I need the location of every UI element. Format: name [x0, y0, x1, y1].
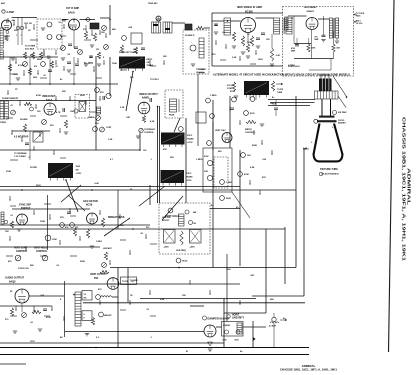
svg-text:47K: 47K [163, 148, 167, 151]
svg-text:IF AGC: IF AGC [18, 64, 25, 67]
svg-text:12K: 12K [266, 39, 270, 41]
svg-text:100K: 100K [40, 221, 45, 223]
svg-text:.05: .05 [43, 75, 46, 77]
svg-text:SYNC: SYNC [204, 156, 209, 158]
svg-text:.05: .05 [55, 66, 58, 68]
svg-text:220K: 220K [226, 198, 231, 200]
svg-text:CONT: CONT [227, 88, 233, 90]
svg-text:CONTRAST: CONTRAST [144, 128, 156, 131]
svg-text:6SN7GT: 6SN7GT [162, 220, 170, 222]
svg-text:RATIO: RATIO [147, 58, 153, 61]
svg-text:12K: 12K [101, 32, 105, 34]
svg-text:6.8K: 6.8K [160, 299, 165, 301]
svg-text:100K: 100K [52, 239, 57, 241]
svg-text:WDG: WDG [356, 16, 361, 18]
svg-text:3RD VIDEO IF AMP: 3RD VIDEO IF AMP [237, 5, 262, 9]
svg-text:+130V: +130V [186, 180, 192, 182]
svg-text:SOUND TAKEOFF: SOUND TAKEOFF [2, 97, 19, 100]
svg-text:VERT OUTPUT: VERT OUTPUT [90, 273, 107, 276]
svg-text:47K: 47K [262, 176, 266, 179]
svg-text:5600: 5600 [33, 77, 37, 79]
svg-text:2.2K: 2.2K [120, 107, 125, 109]
svg-text:+130V: +130V [187, 142, 193, 144]
svg-text:TUBE: TUBE [277, 92, 283, 94]
svg-text:TO PIN: TO PIN [122, 281, 129, 283]
svg-text:4.5 AMP: 4.5 AMP [269, 325, 277, 328]
svg-text:6AW8: 6AW8 [142, 97, 149, 100]
svg-text:1 MEG: 1 MEG [96, 241, 102, 243]
svg-text:ION TRAP: ION TRAP [338, 111, 347, 114]
svg-text:27K: 27K [60, 217, 64, 219]
svg-text:8: 8 [84, 318, 85, 320]
svg-text:HORIZ: HORIZ [232, 315, 240, 317]
svg-text:1 MEG: 1 MEG [88, 117, 95, 119]
svg-text:1ST IF AMP: 1ST IF AMP [66, 7, 79, 10]
svg-text:6AQ5: 6AQ5 [9, 281, 16, 284]
svg-text:CHASSIS 19B1, 19C1, 19F1, A, 1: CHASSIS 19B1, 19C1, 19F1, A, 19H1, 19K1 [280, 367, 337, 371]
svg-text:56K: 56K [270, 299, 274, 301]
svg-text:10K: 10K [182, 295, 186, 297]
svg-text:.0039: .0039 [222, 340, 227, 342]
svg-text:6CB6: 6CB6 [245, 10, 253, 14]
svg-text:3.9K: 3.9K [232, 57, 237, 59]
svg-text:+400V: +400V [190, 246, 196, 249]
svg-text:1.5K: 1.5K [108, 139, 113, 141]
svg-text:VIDEO DET: VIDEO DET [42, 95, 56, 98]
svg-text:TO GRID: TO GRID [198, 69, 206, 71]
svg-text:CONTROL: CONTROL [16, 251, 28, 253]
svg-text:AC: AC [60, 336, 64, 339]
svg-text:SOUND IF: SOUND IF [185, 35, 195, 37]
svg-text:TO TUNER: TO TUNER [25, 46, 36, 48]
svg-text:HORIZ HOLD: HORIZ HOLD [288, 66, 300, 68]
svg-text:100K: 100K [311, 48, 316, 50]
svg-text:4: 4 [84, 313, 85, 316]
svg-text:SOUND: SOUND [20, 119, 28, 121]
svg-text:6.8K: 6.8K [250, 167, 255, 169]
svg-text:150: 150 [96, 49, 99, 51]
svg-text:470K: 470K [46, 316, 51, 319]
svg-text:6AU6: 6AU6 [68, 11, 75, 15]
svg-text:500: 500 [84, 298, 87, 300]
svg-text:MAGNET: MAGNET [338, 122, 347, 125]
svg-text:HOR FREQ: HOR FREQ [176, 250, 187, 252]
svg-text:68K: 68K [112, 29, 116, 31]
svg-text:6CS6: 6CS6 [86, 204, 93, 207]
svg-text:8: 8 [103, 57, 104, 59]
svg-text:115V: 115V [30, 341, 35, 343]
svg-text:LINEARITY: LINEARITY [232, 317, 245, 320]
svg-text:PICTURE TUBE: PICTURE TUBE [320, 168, 338, 171]
svg-text:AGC BUS: AGC BUS [25, 48, 35, 51]
svg-text:6S4: 6S4 [94, 277, 99, 280]
svg-text:WIDTH: WIDTH [245, 129, 252, 131]
svg-text:HOR: HOR [272, 104, 277, 106]
svg-text:500K: 500K [252, 145, 257, 147]
svg-text:C OF TUNER: C OF TUNER [14, 156, 26, 158]
svg-text:150V: 150V [258, 59, 263, 61]
svg-text:2W: 2W [76, 170, 79, 172]
svg-text:22K: 22K [163, 56, 167, 58]
svg-text:HOR SWEEP: HOR SWEEP [304, 7, 317, 9]
svg-text:VIDEO OUTPUT: VIDEO OUTPUT [139, 93, 158, 96]
svg-text:100: 100 [193, 223, 196, 225]
svg-text:1 MEG: 1 MEG [226, 182, 233, 184]
svg-text:470K: 470K [244, 173, 249, 176]
svg-text:VIDEO: VIDEO [0, 122, 7, 124]
svg-text:4.7K: 4.7K [56, 111, 61, 114]
svg-text:B+ 265V: B+ 265V [84, 63, 93, 65]
svg-text:TO PIN 9: TO PIN 9 [150, 79, 159, 81]
svg-text:CONTROL: CONTROL [144, 132, 155, 134]
svg-text:100K: 100K [13, 74, 18, 76]
svg-text:470K: 470K [230, 90, 235, 93]
svg-text:HOR OSC: HOR OSC [162, 217, 171, 219]
svg-text:470K: 470K [36, 94, 41, 97]
svg-text:TO PIX: TO PIX [277, 89, 284, 91]
svg-text:TRAP ADJ: TRAP ADJ [148, 2, 157, 5]
svg-text:FILTER: FILTER [30, 167, 37, 169]
svg-text:+275V: +275V [76, 173, 83, 175]
svg-text:6SN7GT: 6SN7GT [21, 207, 31, 210]
svg-text:10K: 10K [247, 155, 251, 157]
svg-text:2 AMP: 2 AMP [7, 11, 15, 14]
svg-text:HEIGHT: HEIGHT [104, 315, 112, 317]
svg-text:BRIGHTNESS: BRIGHTNESS [108, 216, 125, 219]
svg-text:HOR AFC: HOR AFC [103, 247, 113, 250]
svg-text:270K: 270K [6, 171, 11, 173]
svg-text:39K: 39K [170, 157, 174, 159]
svg-text:PIX IF: PIX IF [187, 135, 193, 137]
svg-text:CONT: CONT [106, 127, 112, 129]
svg-text:ADMIRAL: ADMIRAL [302, 364, 316, 368]
svg-text:12K: 12K [120, 225, 124, 227]
svg-text:VOICE COIL: VOICE COIL [18, 268, 30, 270]
svg-text:OF CRT: OF CRT [198, 73, 206, 75]
svg-text:350V: 350V [36, 185, 41, 187]
svg-text:HOLD: HOLD [182, 261, 188, 263]
svg-text:10K: 10K [70, 111, 74, 113]
svg-text:PEAK: PEAK [169, 114, 175, 117]
svg-text:1 MEG: 1 MEG [210, 95, 217, 97]
svg-text:(ELECTROMAG): (ELECTROMAG) [321, 172, 338, 175]
svg-text:470: 470 [34, 65, 37, 68]
svg-text:100K: 100K [112, 63, 117, 65]
svg-text:ADMIRAL: ADMIRAL [406, 168, 412, 205]
svg-text:VERT HOLD: VERT HOLD [34, 248, 48, 250]
svg-text:CONTROL: CONTROL [36, 251, 48, 253]
svg-text:22K: 22K [62, 91, 66, 93]
svg-text:ALTERNATE MODEL 4T CIRCUIT USE: ALTERNATE MODEL 4T CIRCUIT USED IN CONJU… [213, 72, 350, 76]
svg-text:TRANS: TRANS [186, 176, 193, 179]
svg-text:VERT STAB: VERT STAB [14, 247, 27, 250]
svg-text:3.3K: 3.3K [276, 55, 281, 57]
svg-text:8.2K: 8.2K [150, 121, 155, 123]
svg-text:220K: 220K [80, 261, 85, 263]
svg-text:OSC 120: OSC 120 [24, 23, 32, 25]
svg-text:OF V29: OF V29 [356, 23, 362, 25]
svg-text:ANT: ANT [1, 2, 6, 5]
svg-text:4.5 MC TRAP: 4.5 MC TRAP [14, 136, 29, 139]
svg-text:TO TERMINAL: TO TERMINAL [14, 152, 28, 155]
svg-text:AUDIO OUTPUT: AUDIO OUTPUT [5, 277, 25, 280]
svg-text:1 MEG: 1 MEG [196, 159, 203, 161]
svg-text:TRANS: TRANS [187, 138, 194, 141]
svg-text:.0039: .0039 [234, 340, 239, 342]
svg-text:1+8: 1+8 [131, 281, 134, 283]
svg-text:PIX IF: PIX IF [186, 173, 192, 175]
svg-text:6W4GT: 6W4GT [307, 10, 315, 13]
svg-text:3.2: 3.2 [84, 294, 87, 296]
svg-text:12K: 12K [5, 231, 9, 233]
svg-text:FOCUS: FOCUS [227, 85, 234, 87]
svg-text:47K: 47K [30, 54, 34, 57]
svg-text:56K: 56K [30, 265, 34, 267]
svg-text:VERT OSC: VERT OSC [215, 130, 226, 132]
svg-text:RATIO DET TRANS: RATIO DET TRANS [119, 51, 138, 54]
svg-text:+400V: +400V [164, 246, 170, 249]
svg-text:6AL5: 6AL5 [46, 99, 53, 102]
